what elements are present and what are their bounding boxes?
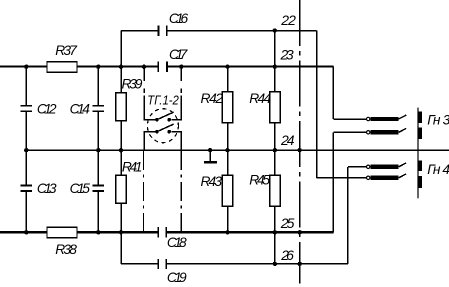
svg-text:R38: R38 bbox=[55, 242, 77, 257]
svg-text:R43: R43 bbox=[201, 174, 223, 189]
svg-text:R45: R45 bbox=[249, 173, 270, 188]
svg-text:C18: C18 bbox=[167, 235, 187, 250]
svg-text:C14: C14 bbox=[70, 101, 91, 116]
svg-text:Гн: Гн bbox=[427, 162, 441, 177]
svg-text:4: 4 bbox=[442, 162, 449, 177]
svg-text:R37: R37 bbox=[55, 43, 78, 58]
svg-text:R41: R41 bbox=[122, 160, 142, 175]
svg-text:C17: C17 bbox=[169, 47, 189, 62]
svg-text:22: 22 bbox=[280, 12, 296, 28]
svg-text:3: 3 bbox=[443, 113, 449, 128]
svg-text:C19: C19 bbox=[167, 270, 187, 285]
svg-text:C13: C13 bbox=[37, 181, 57, 196]
svg-text:R39: R39 bbox=[122, 77, 143, 92]
svg-text:R42: R42 bbox=[201, 91, 224, 106]
svg-text:24: 24 bbox=[280, 132, 295, 148]
svg-text:Гн: Гн bbox=[427, 113, 441, 128]
svg-text:C15: C15 bbox=[70, 181, 91, 196]
svg-text:26: 26 bbox=[280, 247, 294, 263]
svg-text:25: 25 bbox=[280, 215, 295, 231]
svg-text:23: 23 bbox=[280, 47, 294, 63]
svg-text:R44: R44 bbox=[249, 91, 271, 106]
svg-text:C12: C12 bbox=[37, 101, 57, 116]
svg-text:ТГ.1-2: ТГ.1-2 bbox=[147, 92, 179, 107]
svg-text:C16: C16 bbox=[169, 11, 189, 26]
